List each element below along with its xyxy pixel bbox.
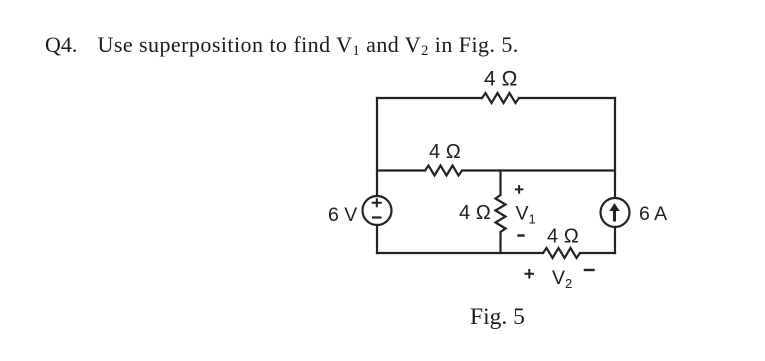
label V2 polarity plus (525, 269, 535, 279)
wire: voltage source to bottom rail (376, 225, 378, 253)
resistor R3 4Ω (vertical branch) (496, 195, 506, 232)
svg-text:6 A: 6 A (639, 203, 667, 225)
label V1 polarity plus (515, 185, 524, 194)
current source I1src 6A (circle with up arrow) (601, 198, 630, 227)
wire: middle rail right segment (462, 169, 615, 171)
wire: top rail left segment (377, 97, 482, 99)
label V2 polarity minus (584, 269, 595, 271)
resistor R1 4Ω (top rail) (482, 93, 519, 103)
svg-text:V1: V1 (516, 203, 536, 227)
resistor R2 4Ω (middle rail) (425, 166, 462, 176)
wire: left vertical from top rail to voltage source (376, 98, 378, 196)
svg-text:Use superposition to find V1 a: Use superposition to find V1 and V2 in F… (98, 32, 519, 59)
svg-text:4 Ω: 4 Ω (429, 141, 461, 163)
wire: right vertical from top rail to current source (614, 98, 616, 198)
svg-text:6 V: 6 V (328, 204, 357, 226)
svg-text:Fig. 5: Fig. 5 (470, 304, 525, 330)
wire: middle rail left segment (377, 169, 425, 171)
wire: current source to bottom rail (614, 227, 616, 253)
resistor R4 4Ω (bottom rail) (543, 248, 580, 258)
svg-text:4 Ω: 4 Ω (459, 202, 491, 224)
wire: bottom rail right segment (580, 252, 615, 254)
svg-text:4 Ω: 4 Ω (547, 226, 579, 248)
svg-text:4 Ω: 4 Ω (484, 68, 518, 91)
svg-text:V2: V2 (552, 267, 572, 291)
voltage source V1src 6V (circle with plus minus) (363, 196, 392, 225)
wire: branch from middle rail down to R3 (499, 171, 501, 196)
wire: R3 to bottom rail (499, 232, 501, 253)
svg-text:Q4.: Q4. (45, 32, 77, 57)
wire: bottom rail left segment (377, 252, 543, 254)
label V1 polarity minus (517, 234, 524, 236)
wire: top rail right segment (519, 97, 615, 99)
